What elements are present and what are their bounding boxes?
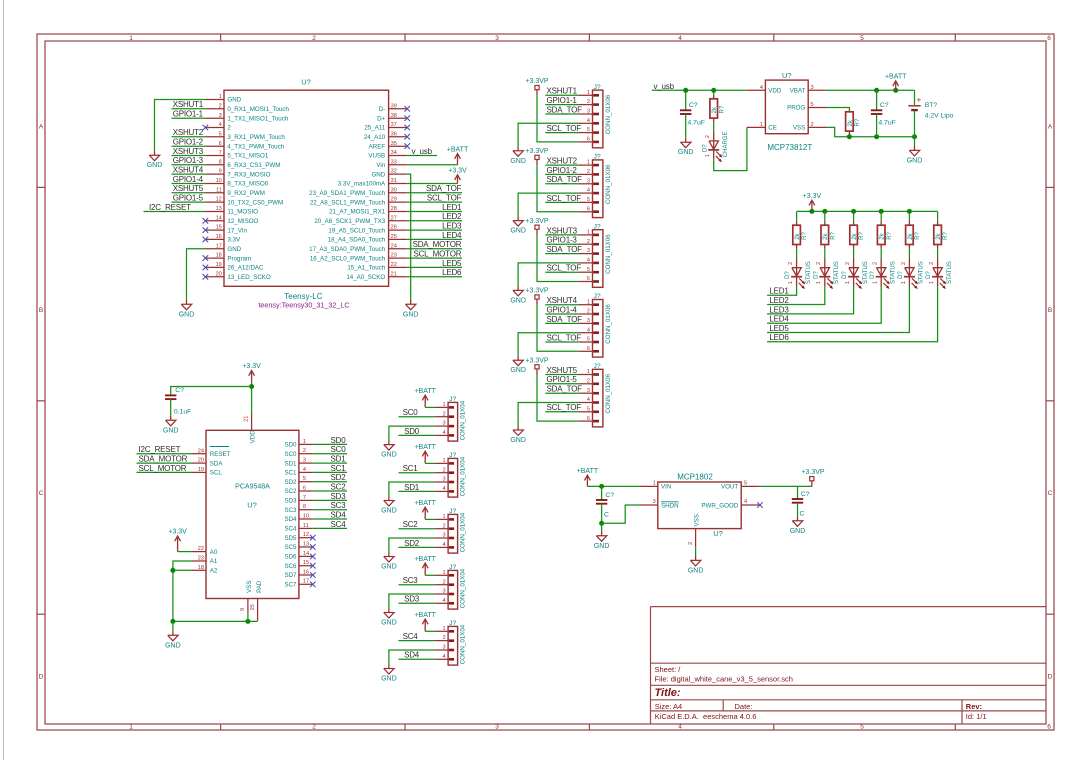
svg-text:+3.3V: +3.3V xyxy=(242,363,261,370)
svg-text:GPIO1-1: GPIO1-1 xyxy=(547,96,578,105)
svg-text:16_A2_SCL0_PWM_Touch: 16_A2_SCL0_PWM_Touch xyxy=(310,255,386,262)
svg-text:SC2: SC2 xyxy=(331,482,347,491)
svg-text:C?: C? xyxy=(175,387,184,394)
svg-text:1: 1 xyxy=(587,299,590,305)
svg-text:A1: A1 xyxy=(210,558,218,565)
svg-text:GND: GND xyxy=(678,149,694,156)
svg-text:13_LED_SCKO: 13_LED_SCKO xyxy=(227,274,271,281)
svg-text:D?: D? xyxy=(813,271,819,279)
svg-text:GND: GND xyxy=(381,452,397,459)
svg-text:VSS: VSS xyxy=(246,581,253,593)
svg-text:+BATT: +BATT xyxy=(447,146,469,153)
svg-text:3.3V_max100mA: 3.3V_max100mA xyxy=(338,181,386,188)
svg-text:XSHUT4: XSHUT4 xyxy=(173,166,204,175)
svg-text:C: C xyxy=(39,490,44,497)
svg-text:SCL_TOF: SCL_TOF xyxy=(547,194,582,203)
svg-text:VSS: VSS xyxy=(793,125,805,132)
svg-text:36: 36 xyxy=(391,131,397,137)
svg-text:25: 25 xyxy=(391,234,397,240)
svg-text:18_A4_SDA0_Touch: 18_A4_SDA0_Touch xyxy=(328,237,386,244)
svg-text:6: 6 xyxy=(587,416,590,422)
svg-text:0.1uF: 0.1uF xyxy=(174,409,191,416)
svg-text:6: 6 xyxy=(587,206,590,212)
svg-text:2k: 2k xyxy=(823,232,829,239)
svg-text:5: 5 xyxy=(219,131,222,137)
svg-text:21: 21 xyxy=(244,416,250,422)
svg-text:GPIO1-1: GPIO1-1 xyxy=(173,110,204,119)
svg-text:SC4: SC4 xyxy=(403,632,419,641)
svg-text:SC4: SC4 xyxy=(284,526,297,533)
svg-text:SD4: SD4 xyxy=(331,510,347,519)
svg-text:14: 14 xyxy=(216,215,222,221)
svg-text:35: 35 xyxy=(391,141,397,147)
svg-text:3: 3 xyxy=(587,388,590,394)
svg-text:Vin: Vin xyxy=(376,162,385,169)
svg-text:4: 4 xyxy=(744,499,747,505)
svg-text:D: D xyxy=(39,674,44,681)
svg-text:C: C xyxy=(1048,490,1053,497)
svg-text:SD2: SD2 xyxy=(284,479,297,486)
svg-text:31: 31 xyxy=(391,178,397,184)
svg-text:GPIO1-4: GPIO1-4 xyxy=(173,175,204,184)
svg-text:23: 23 xyxy=(391,253,397,259)
svg-text:27: 27 xyxy=(391,215,397,221)
svg-text:38: 38 xyxy=(391,113,397,119)
svg-text:15_A1_Touch: 15_A1_Touch xyxy=(347,265,385,272)
svg-text:C?: C? xyxy=(689,102,698,109)
svg-text:3: 3 xyxy=(442,421,445,427)
svg-text:8: 8 xyxy=(219,159,222,165)
svg-text:U?: U? xyxy=(782,71,792,80)
svg-text:B: B xyxy=(39,307,43,314)
svg-text:2k: 2k xyxy=(852,232,858,239)
svg-text:J?: J? xyxy=(594,154,601,161)
svg-text:3: 3 xyxy=(495,35,499,42)
svg-text:1: 1 xyxy=(442,626,445,632)
svg-text:4.7uF: 4.7uF xyxy=(688,120,705,127)
svg-text:PROG: PROG xyxy=(787,105,805,112)
svg-text:5: 5 xyxy=(860,724,864,731)
svg-text:6: 6 xyxy=(219,141,222,147)
svg-text:2: 2 xyxy=(442,523,445,529)
svg-text:B: B xyxy=(1048,307,1052,314)
svg-text:9: 9 xyxy=(240,608,246,611)
svg-text:5: 5 xyxy=(587,267,590,273)
svg-text:GPIO1-3: GPIO1-3 xyxy=(173,156,204,165)
svg-text:+: + xyxy=(916,95,921,105)
svg-text:25_A11: 25_A11 xyxy=(364,125,385,132)
svg-text:STATUS: STATUS xyxy=(806,261,812,284)
svg-text:2: 2 xyxy=(587,378,590,384)
svg-text:J?: J? xyxy=(449,620,456,627)
svg-text:30: 30 xyxy=(391,187,397,193)
svg-text:C: C xyxy=(604,512,609,519)
svg-text:SC5: SC5 xyxy=(284,544,297,551)
svg-text:23_A9_SDA1_PWM_Touch: 23_A9_SDA1_PWM_Touch xyxy=(309,190,386,197)
svg-text:+BATT: +BATT xyxy=(414,612,436,619)
svg-text:CONN_01X06: CONN_01X06 xyxy=(605,304,612,344)
svg-text:J?: J? xyxy=(449,452,456,459)
svg-text:1: 1 xyxy=(760,122,763,128)
svg-text:SC0: SC0 xyxy=(331,445,347,454)
svg-text:20: 20 xyxy=(198,458,204,464)
svg-text:6: 6 xyxy=(1047,724,1051,731)
svg-text:4: 4 xyxy=(587,118,590,124)
svg-text:18: 18 xyxy=(198,565,204,571)
svg-text:1: 1 xyxy=(845,281,851,284)
svg-text:SD5: SD5 xyxy=(284,535,297,542)
svg-text:SHDN: SHDN xyxy=(661,502,679,509)
svg-text:GND: GND xyxy=(594,543,610,550)
svg-text:J?: J? xyxy=(594,363,601,370)
svg-text:GND: GND xyxy=(510,158,526,165)
svg-text:3: 3 xyxy=(442,589,445,595)
svg-text:SC1: SC1 xyxy=(284,470,297,477)
svg-text:SD0: SD0 xyxy=(404,427,420,436)
svg-text:11_MOSIO: 11_MOSIO xyxy=(227,209,258,216)
svg-text:R?: R? xyxy=(859,231,865,239)
svg-text:R?: R? xyxy=(887,231,893,239)
svg-text:+3.3V: +3.3V xyxy=(803,193,822,200)
svg-text:1: 1 xyxy=(129,724,133,731)
svg-text:SD0: SD0 xyxy=(284,442,297,449)
svg-text:SDA_MOTOR: SDA_MOTOR xyxy=(139,455,188,464)
svg-text:6: 6 xyxy=(587,137,590,143)
svg-text:1: 1 xyxy=(788,281,794,284)
svg-text:+BATT: +BATT xyxy=(885,74,907,81)
svg-text:1_TX1_MISO1_Touch: 1_TX1_MISO1_Touch xyxy=(227,115,288,122)
svg-text:VOUT: VOUT xyxy=(721,484,738,491)
svg-text:SD2: SD2 xyxy=(331,473,347,482)
svg-text:9: 9 xyxy=(219,169,222,175)
svg-text:Rev:: Rev: xyxy=(966,702,982,711)
svg-text:19_A5_SCL0_Touch: 19_A5_SCL0_Touch xyxy=(328,227,385,234)
svg-text:D-: D- xyxy=(379,106,386,113)
svg-text:GND: GND xyxy=(147,162,163,169)
svg-text:3: 3 xyxy=(495,724,499,731)
svg-text:U?: U? xyxy=(713,529,723,538)
svg-text:SD1: SD1 xyxy=(331,455,347,464)
svg-text:10: 10 xyxy=(216,178,222,184)
svg-text:17: 17 xyxy=(216,243,222,249)
svg-text:1: 1 xyxy=(816,281,822,284)
svg-text:CONN_01X06: CONN_01X06 xyxy=(605,373,612,413)
svg-text:23: 23 xyxy=(198,556,204,562)
svg-text:39: 39 xyxy=(391,103,397,109)
svg-text:XSHUT5: XSHUT5 xyxy=(173,184,204,193)
svg-text:4: 4 xyxy=(587,258,590,264)
svg-text:3: 3 xyxy=(653,499,656,505)
svg-text:CHARGE: CHARGE xyxy=(723,132,729,158)
svg-text:D?: D? xyxy=(842,271,848,279)
svg-text:J?: J? xyxy=(594,293,601,300)
svg-text:C?: C? xyxy=(801,491,810,498)
svg-text:1: 1 xyxy=(587,230,590,236)
svg-text:2: 2 xyxy=(816,262,822,265)
svg-text:Teensy-LC: Teensy-LC xyxy=(284,292,322,301)
svg-text:Size: A4: Size: A4 xyxy=(655,702,683,711)
svg-text:SC2: SC2 xyxy=(284,488,297,495)
svg-text:SC4: SC4 xyxy=(331,520,347,529)
svg-text:A2: A2 xyxy=(210,568,218,575)
svg-text:GPIO1-2: GPIO1-2 xyxy=(547,166,578,175)
svg-text:XSHUT2: XSHUT2 xyxy=(173,128,204,137)
svg-text:SDA_TOF: SDA_TOF xyxy=(547,315,583,324)
svg-text:J?: J? xyxy=(449,508,456,515)
svg-text:GND: GND xyxy=(179,311,195,318)
svg-text:6: 6 xyxy=(1047,35,1051,42)
svg-text:SD6: SD6 xyxy=(284,554,297,561)
svg-text:26: 26 xyxy=(391,225,397,231)
svg-text:D?: D? xyxy=(870,271,876,279)
svg-text:CONN_01X04: CONN_01X04 xyxy=(460,456,467,496)
svg-text:2: 2 xyxy=(929,262,935,265)
svg-text:XSHUT4: XSHUT4 xyxy=(547,296,578,305)
svg-text:13: 13 xyxy=(216,206,222,212)
svg-text:J?: J? xyxy=(594,223,601,230)
svg-text:SD2: SD2 xyxy=(404,539,420,548)
svg-text:5: 5 xyxy=(587,197,590,203)
svg-text:SC6: SC6 xyxy=(284,563,297,570)
svg-text:1: 1 xyxy=(129,35,133,42)
svg-text:SD0: SD0 xyxy=(331,436,347,445)
svg-text:VDD: VDD xyxy=(250,430,257,444)
svg-text:19: 19 xyxy=(216,262,222,268)
svg-text:GND: GND xyxy=(227,97,241,104)
svg-text:1: 1 xyxy=(442,402,445,408)
svg-text:4: 4 xyxy=(219,122,222,128)
svg-text:+BATT: +BATT xyxy=(414,556,436,563)
svg-text:LED6: LED6 xyxy=(769,333,789,342)
svg-text:VUSB: VUSB xyxy=(368,153,385,160)
svg-text:4: 4 xyxy=(442,542,445,548)
svg-text:15: 15 xyxy=(216,225,222,231)
svg-text:+3.3VP: +3.3VP xyxy=(525,78,548,85)
svg-text:SD4: SD4 xyxy=(404,651,420,660)
svg-text:6: 6 xyxy=(587,346,590,352)
svg-text:21: 21 xyxy=(391,271,397,277)
svg-text:LED4: LED4 xyxy=(442,231,462,240)
svg-text:LED4: LED4 xyxy=(769,315,789,324)
svg-text:33: 33 xyxy=(391,159,397,165)
svg-text:SCL_TOF: SCL_TOF xyxy=(547,403,582,412)
svg-text:2: 2 xyxy=(587,169,590,175)
svg-text:2: 2 xyxy=(442,635,445,641)
svg-text:GND: GND xyxy=(510,367,526,374)
svg-text:4: 4 xyxy=(760,85,763,91)
svg-text:CE: CE xyxy=(768,125,777,132)
svg-text:GND: GND xyxy=(227,246,241,253)
svg-text:10_TX2_CS0_PWM: 10_TX2_CS0_PWM xyxy=(227,199,283,206)
svg-text:XSHUT2: XSHUT2 xyxy=(547,157,578,166)
svg-text:LED3: LED3 xyxy=(442,222,462,231)
svg-text:17: 17 xyxy=(303,579,309,585)
svg-text:5: 5 xyxy=(811,102,814,108)
svg-text:SC1: SC1 xyxy=(403,464,419,473)
svg-text:SC1: SC1 xyxy=(331,464,347,473)
svg-text:2: 2 xyxy=(227,125,231,132)
svg-text:XSHUT5: XSHUT5 xyxy=(547,366,578,375)
svg-text:SD4: SD4 xyxy=(284,516,297,523)
svg-text:D?: D? xyxy=(898,271,904,279)
svg-text:2k: 2k xyxy=(936,232,942,239)
svg-text:+3.3VP: +3.3VP xyxy=(525,288,548,295)
svg-text:R?: R? xyxy=(855,118,861,126)
svg-text:CONN_01X04: CONN_01X04 xyxy=(460,624,467,664)
svg-text:R?: R? xyxy=(943,231,949,239)
svg-text:GPIO1-4: GPIO1-4 xyxy=(547,305,578,314)
svg-text:2: 2 xyxy=(788,262,794,265)
svg-text:CONN_01X06: CONN_01X06 xyxy=(605,94,612,134)
svg-text:GND: GND xyxy=(907,157,923,164)
svg-text:3: 3 xyxy=(219,113,222,119)
svg-text:1: 1 xyxy=(219,94,222,100)
svg-text:A0: A0 xyxy=(210,549,218,556)
svg-text:SCL_MOTOR: SCL_MOTOR xyxy=(139,464,187,473)
svg-text:C?: C? xyxy=(880,102,889,109)
svg-text:4: 4 xyxy=(678,724,682,731)
svg-text:J?: J? xyxy=(594,84,601,91)
svg-text:VDD: VDD xyxy=(768,88,782,95)
svg-text:4: 4 xyxy=(587,397,590,403)
svg-text:U?: U? xyxy=(247,501,257,510)
svg-text:SC7: SC7 xyxy=(284,582,297,589)
svg-text:10: 10 xyxy=(303,513,309,519)
svg-text:1: 1 xyxy=(303,439,306,445)
svg-text:+3.3VP: +3.3VP xyxy=(801,469,824,476)
svg-text:6_RX3_CS1_PWM: 6_RX3_CS1_PWM xyxy=(227,162,280,169)
svg-text:11: 11 xyxy=(216,187,222,193)
svg-text:GND: GND xyxy=(790,528,806,535)
svg-text:+3.3VP: +3.3VP xyxy=(525,357,548,364)
svg-text:STATUS: STATUS xyxy=(919,261,925,284)
svg-text:SCL_TOF: SCL_TOF xyxy=(547,264,582,273)
svg-text:4.2V Lipo: 4.2V Lipo xyxy=(925,112,954,119)
svg-text:R?: R? xyxy=(802,231,808,239)
svg-text:2: 2 xyxy=(873,262,879,265)
svg-text:8: 8 xyxy=(303,504,306,510)
svg-text:2k: 2k xyxy=(712,106,718,113)
svg-text:3: 3 xyxy=(587,318,590,324)
svg-text:5_TX1_MISO1: 5_TX1_MISO1 xyxy=(227,153,268,160)
svg-text:XSHUT1: XSHUT1 xyxy=(173,100,204,109)
svg-text:5: 5 xyxy=(587,406,590,412)
svg-text:2: 2 xyxy=(587,309,590,315)
svg-text:R?: R? xyxy=(915,231,921,239)
svg-text:1: 1 xyxy=(873,281,879,284)
svg-text:14: 14 xyxy=(303,551,309,557)
svg-text:2k: 2k xyxy=(848,119,854,126)
svg-text:2: 2 xyxy=(442,579,445,585)
svg-text:2: 2 xyxy=(901,262,907,265)
svg-text:SD1: SD1 xyxy=(404,483,420,492)
svg-text:LED2: LED2 xyxy=(769,296,789,305)
svg-text:J?: J? xyxy=(449,396,456,403)
svg-text:SDA_TOF: SDA_TOF xyxy=(547,105,583,114)
svg-text:5: 5 xyxy=(303,476,306,482)
svg-text:SC0: SC0 xyxy=(284,451,297,458)
svg-text:11: 11 xyxy=(303,523,309,529)
svg-text:+3.3V: +3.3V xyxy=(168,529,187,536)
svg-text:SDA_TOF: SDA_TOF xyxy=(547,175,583,184)
svg-text:SD3: SD3 xyxy=(331,492,347,501)
svg-text:2: 2 xyxy=(811,122,814,128)
svg-text:GND: GND xyxy=(510,228,526,235)
svg-text:2: 2 xyxy=(303,448,306,454)
svg-text:6: 6 xyxy=(587,276,590,282)
svg-text:LED2: LED2 xyxy=(442,212,462,221)
svg-text:1: 1 xyxy=(442,514,445,520)
svg-text:D?: D? xyxy=(926,271,932,279)
svg-text:SDA_TOF: SDA_TOF xyxy=(547,245,583,254)
svg-text:16: 16 xyxy=(216,234,222,240)
svg-text:17_VIn: 17_VIn xyxy=(227,227,247,234)
svg-text:5: 5 xyxy=(587,337,590,343)
svg-text:GND: GND xyxy=(163,427,179,434)
svg-text:GND: GND xyxy=(688,567,704,574)
svg-text:2: 2 xyxy=(442,411,445,417)
svg-text:4_TX1_PWM_Touch: 4_TX1_PWM_Touch xyxy=(227,143,284,150)
svg-text:22_A8_SCL1_PWM_Touch: 22_A8_SCL1_PWM_Touch xyxy=(310,199,386,206)
svg-text:GND: GND xyxy=(381,564,397,571)
svg-text:Title:: Title: xyxy=(655,687,681,699)
svg-text:XSHUT1: XSHUT1 xyxy=(547,87,578,96)
svg-text:3: 3 xyxy=(442,533,445,539)
svg-text:7: 7 xyxy=(219,150,222,156)
svg-text:+BATT: +BATT xyxy=(414,444,436,451)
svg-text:2: 2 xyxy=(688,542,694,545)
svg-text:D?: D? xyxy=(785,271,791,279)
svg-text:+3.3V: +3.3V xyxy=(448,168,467,175)
svg-text:1: 1 xyxy=(587,90,590,96)
svg-text:LED3: LED3 xyxy=(769,305,789,314)
svg-text:SC3: SC3 xyxy=(403,576,419,585)
svg-text:RESET: RESET xyxy=(210,451,231,458)
svg-text:teensy:Teensy30_31_32_LC: teensy:Teensy30_31_32_LC xyxy=(258,301,349,310)
svg-text:5: 5 xyxy=(744,481,747,487)
svg-text:12: 12 xyxy=(303,532,309,538)
svg-text:20: 20 xyxy=(216,271,222,277)
svg-text:3: 3 xyxy=(442,645,445,651)
svg-text:18: 18 xyxy=(216,253,222,259)
svg-text:9_RX2_PWM: 9_RX2_PWM xyxy=(227,190,264,197)
svg-text:SD3: SD3 xyxy=(284,498,297,505)
svg-text:3: 3 xyxy=(587,109,590,115)
svg-text:8_TX3_MISO0: 8_TX3_MISO0 xyxy=(227,181,268,188)
svg-text:GPIO1-2: GPIO1-2 xyxy=(173,138,204,147)
svg-text:D: D xyxy=(1048,674,1053,681)
svg-text:4: 4 xyxy=(587,188,590,194)
svg-text:LED6: LED6 xyxy=(442,268,462,277)
svg-text:4: 4 xyxy=(587,327,590,333)
svg-text:SDA_MOTOR: SDA_MOTOR xyxy=(413,240,462,249)
svg-text:22: 22 xyxy=(198,546,204,552)
svg-text:2k: 2k xyxy=(908,232,914,239)
svg-text:+BATT: +BATT xyxy=(414,388,436,395)
svg-text:SC0: SC0 xyxy=(403,408,419,417)
svg-text:BT?: BT? xyxy=(925,102,938,109)
svg-text:14_A0_SCKO: 14_A0_SCKO xyxy=(346,274,385,281)
svg-text:5: 5 xyxy=(860,35,864,42)
svg-text:SCL_TOF: SCL_TOF xyxy=(547,333,582,342)
svg-text:7: 7 xyxy=(303,495,306,501)
svg-text:GND: GND xyxy=(510,437,526,444)
svg-text:LED5: LED5 xyxy=(442,259,462,268)
svg-text:STATUS: STATUS xyxy=(834,261,840,284)
svg-text:SCL_TOF: SCL_TOF xyxy=(427,194,462,203)
svg-text:1: 1 xyxy=(901,281,907,284)
svg-text:2: 2 xyxy=(312,35,316,42)
